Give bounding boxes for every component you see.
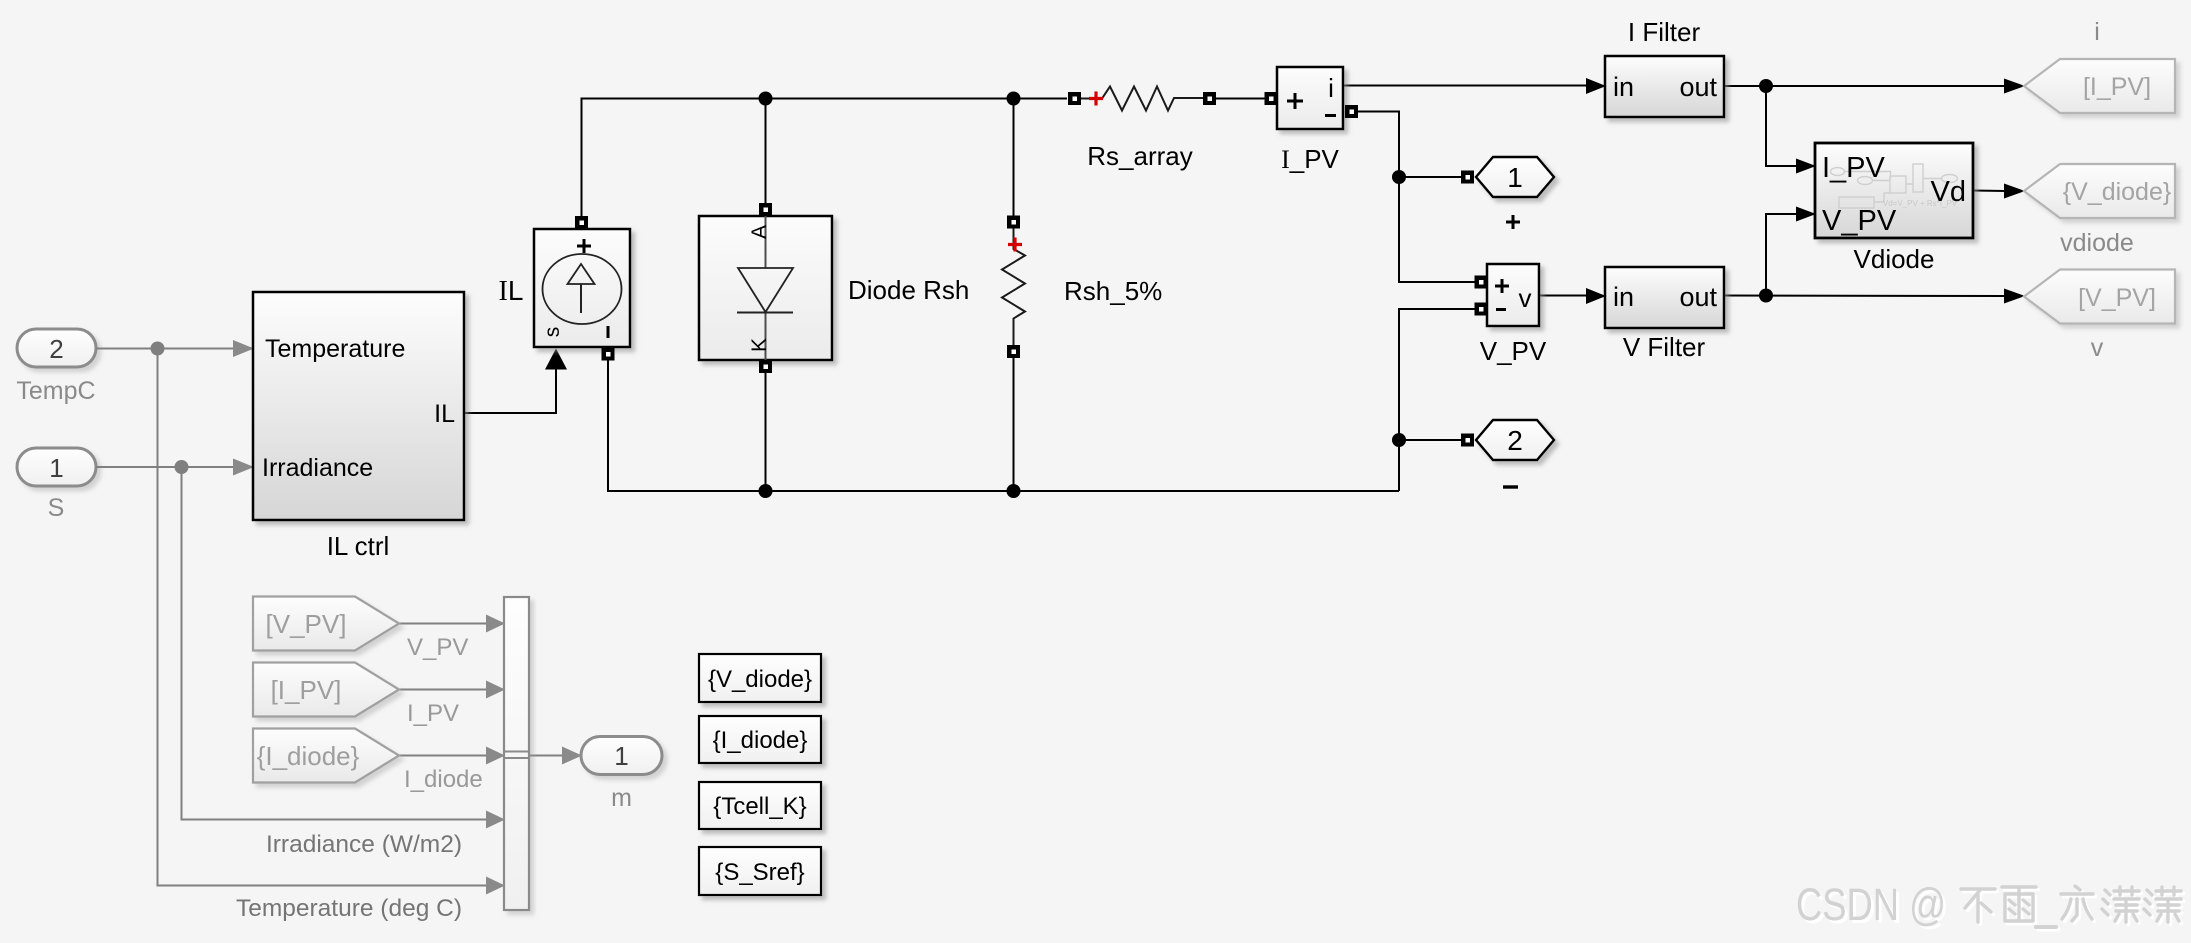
goto tag V_PV (right) — [2024, 270, 2175, 363]
tag box I_diode — [699, 716, 821, 763]
svg-text:I_PV: I_PV — [1822, 152, 1886, 184]
wire Rsh top branch — [1013, 99, 1015, 217]
svg-text:A: A — [748, 225, 771, 239]
port square I_PV - — [1345, 105, 1358, 118]
from tag V_PV (bottom left) — [253, 597, 468, 662]
tag box S_Sref — [699, 847, 821, 895]
svg-text:2: 2 — [1507, 425, 1523, 456]
watermark — [1796, 879, 2184, 933]
input port 2 TempC — [16, 329, 96, 405]
current sensor I_PV — [1277, 67, 1343, 174]
arrow into V Filter — [1586, 288, 1606, 304]
arrow into I Filter — [1586, 78, 1606, 94]
arrow into IL ctrl Irradiance — [233, 459, 254, 476]
svg-text:IL: IL — [434, 400, 455, 428]
node bottom rail / Rsh — [1007, 484, 1021, 498]
tag box V_diode — [699, 654, 821, 702]
wire V Filter out to goto V_PV — [1724, 295, 2005, 298]
arrow into goto V_diode — [2004, 184, 2025, 199]
svg-text:v: v — [1519, 283, 1532, 313]
port square V_PV + — [1475, 276, 1488, 289]
wire branch to Vdiode V_PV input — [1766, 214, 1797, 296]
wire Vdiode Vd output to goto V_diode — [1973, 190, 2005, 193]
svg-text:vdiode: vdiode — [2060, 229, 2134, 257]
svg-text:K: K — [748, 338, 771, 352]
node I Filter out — [1759, 79, 1773, 93]
output hexagon 1 + — [1476, 157, 1554, 229]
port square Rsh bottom — [1007, 345, 1020, 358]
svg-text:2: 2 — [49, 334, 63, 364]
svg-text:1: 1 — [49, 453, 63, 483]
port square IL - — [602, 348, 615, 361]
svg-text:[V_PV]: [V_PV] — [266, 609, 347, 639]
wire I Filter out to goto I_PV — [1724, 85, 2005, 87]
wire diode bottom branch — [765, 372, 767, 491]
arrow into IL ctrl Temperature — [233, 340, 254, 357]
wire to hexagon 1 — [1399, 176, 1462, 178]
subsystem IL ctrl — [253, 292, 464, 561]
wire bottom rail — [608, 359, 1399, 491]
mux — [236, 597, 529, 922]
arrow into IL source control input — [545, 349, 567, 370]
svg-text:I_PV: I_PV — [407, 700, 459, 727]
port square hexagon 1 — [1461, 171, 1474, 184]
svg-text:i: i — [1328, 73, 1334, 103]
subsystem V Filter — [1605, 267, 1724, 362]
arrow into mux input 5 — [486, 877, 505, 895]
wire IL ctrl output to IL source control input — [464, 368, 556, 413]
output hexagon 2 - — [1476, 420, 1554, 487]
svg-text:Diode Rsh: Diode Rsh — [848, 275, 969, 305]
arrow into mux input 3 — [486, 747, 505, 765]
port square Rsh top — [1007, 216, 1020, 229]
port square hexagon 2 — [1461, 434, 1474, 447]
svg-text:i: i — [2094, 18, 2100, 46]
wire from V_PV tag to mux input 1 — [399, 623, 486, 625]
wire Rs_array to I_PV — [1216, 98, 1265, 100]
svg-text:V_PV: V_PV — [1822, 205, 1897, 237]
arrow into goto V_PV — [2004, 289, 2025, 304]
svg-text:{V_diode}: {V_diode} — [708, 666, 812, 693]
arrow into Vdiode I_PV input — [1796, 159, 1816, 174]
svg-text:s: s — [541, 327, 564, 338]
wire V_PV output to V Filter — [1539, 295, 1587, 297]
svg-text:1: 1 — [614, 741, 628, 771]
svg-text:IL ctrl: IL ctrl — [327, 531, 390, 561]
svg-text:Irradiance (W/m2): Irradiance (W/m2) — [266, 831, 462, 858]
wire mux output to port m — [529, 755, 563, 757]
wire TempC branch down to mux input 5 — [158, 349, 487, 886]
resistor Rsh_5% — [1002, 228, 1162, 345]
svg-text:{V_diode}: {V_diode} — [2063, 178, 2171, 206]
node V Filter out — [1759, 289, 1773, 303]
svg-text:I Filter: I Filter — [1628, 17, 1701, 47]
wire branch to Vdiode I_PV input — [1766, 86, 1797, 166]
port square Rs_array left — [1068, 92, 1081, 105]
port square I_PV + — [1265, 92, 1278, 105]
wire S to IL ctrl Irradiance — [96, 466, 234, 468]
port square diode A — [759, 203, 772, 216]
svg-text:Vd: Vd — [1931, 176, 1966, 208]
arrow into mux input 2 — [486, 681, 505, 699]
svg-text:{S_Sref}: {S_Sref} — [715, 859, 804, 886]
svg-text:out: out — [1679, 72, 1717, 102]
svg-text:in: in — [1613, 72, 1634, 102]
wire TempC to IL ctrl Temperature — [96, 348, 234, 350]
svg-text:[I_PV]: [I_PV] — [271, 675, 342, 705]
svg-text:V Filter: V Filter — [1623, 332, 1706, 362]
arrow into Vdiode V_PV input — [1796, 207, 1816, 222]
port square V_PV - — [1475, 303, 1488, 316]
svg-text:Irradiance: Irradiance — [262, 454, 373, 482]
svg-text:IL: IL — [499, 275, 524, 307]
svg-text:{I_diode}: {I_diode} — [257, 741, 360, 771]
svg-text:[V_PV]: [V_PV] — [2078, 284, 2156, 312]
svg-text:v: v — [2091, 334, 2104, 362]
arrow into mux input 4 — [486, 811, 505, 829]
wire I_PV i output to I Filter — [1343, 85, 1587, 87]
svg-text:Temperature (deg C): Temperature (deg C) — [236, 895, 462, 922]
port square diode K — [759, 360, 772, 373]
arrow into goto I_PV — [2004, 79, 2025, 94]
wire V_PV minus down to bottom rail — [1399, 309, 1476, 491]
svg-text:S: S — [48, 494, 65, 522]
svg-text:1: 1 — [1507, 162, 1523, 193]
from tag I_PV (bottom left) — [253, 663, 459, 728]
port square Rs_array right — [1203, 92, 1216, 105]
port square IL + — [575, 216, 588, 229]
svg-text:V_PV: V_PV — [1480, 336, 1547, 366]
wire I_PV minus down to V_PV plus — [1358, 112, 1476, 283]
svg-text:TempC: TempC — [16, 377, 95, 405]
wire Rsh bottom branch — [1013, 357, 1015, 491]
svg-text:in: in — [1613, 282, 1634, 312]
wire diode top branch — [765, 99, 767, 205]
svg-text:I_PV: I_PV — [1281, 144, 1339, 174]
svg-text:Rsh_5%: Rsh_5% — [1064, 276, 1162, 306]
node S branch — [175, 460, 189, 474]
input port 1 S — [17, 448, 96, 522]
from tag I_diode (bottom left) — [253, 729, 483, 794]
voltage sensor V_PV — [1480, 264, 1547, 366]
goto tag I_PV (right) — [2024, 18, 2175, 113]
svg-text:V_PV: V_PV — [407, 634, 468, 661]
node top rail / diode — [759, 92, 773, 106]
svg-text:{I_diode}: {I_diode} — [713, 727, 808, 754]
wire top rail from IL + terminal to Rs_array — [582, 99, 1068, 223]
wire from I_diode tag to mux input 3 — [399, 755, 486, 757]
wire S branch down to mux input 4 — [182, 467, 487, 820]
diode Diode Rsh — [699, 216, 969, 360]
node bottom rail / diode — [759, 484, 773, 498]
node top rail / Rsh — [1007, 92, 1021, 106]
svg-text:Temperature: Temperature — [265, 335, 405, 363]
svg-text:out: out — [1679, 282, 1717, 312]
wire from I_PV tag to mux input 2 — [399, 689, 486, 691]
resistor Rs_array — [1081, 87, 1203, 172]
arrow into mux input 1 — [486, 615, 505, 633]
output port 1 m — [581, 737, 662, 813]
svg-text:m: m — [611, 784, 632, 812]
wire to hexagon 2 — [1399, 439, 1462, 441]
svg-text:I_diode: I_diode — [404, 766, 483, 793]
current source IL — [499, 229, 630, 347]
node I_PV minus / hexagon 1 — [1392, 170, 1406, 184]
arrow into port m — [562, 747, 582, 765]
svg-text:CSDN @: CSDN @ — [1796, 879, 1946, 930]
svg-text:[I_PV]: [I_PV] — [2083, 73, 2151, 101]
svg-text:Rs_array: Rs_array — [1087, 141, 1192, 171]
svg-text:Vdiode: Vdiode — [1854, 244, 1935, 274]
goto tag V_diode (right) — [2024, 164, 2175, 257]
subsystem I Filter — [1605, 17, 1724, 117]
tag box Tcell_K — [699, 782, 821, 829]
node V_PV minus / hexagon 2 — [1392, 433, 1406, 447]
subsystem Vdiode — [1815, 143, 1973, 274]
svg-text:{Tcell_K}: {Tcell_K} — [713, 793, 806, 820]
node TempC branch — [151, 342, 165, 356]
